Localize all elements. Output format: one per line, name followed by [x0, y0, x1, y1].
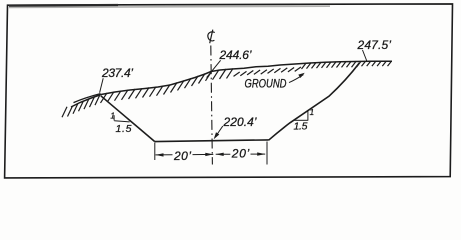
leader GROUND with arrow — [289, 73, 305, 83]
left slope line — [101, 96, 155, 142]
centerline symbol — [208, 30, 215, 44]
right extension line — [266, 142, 268, 165]
svg-text:20’: 20’ — [173, 149, 191, 163]
trench bottom line — [155, 140, 269, 142]
border frame — [5, 4, 453, 178]
leader 244.6' — [207, 60, 221, 77]
svg-text:20’: 20’ — [231, 147, 250, 161]
left slope symbol: horizontal tick — [114, 121, 129, 122]
svg-text:1.5: 1.5 — [294, 121, 308, 133]
leader 247.5' — [363, 50, 367, 61]
right slope line — [269, 63, 360, 140]
leader 220.4' with arrow — [214, 126, 223, 139]
leader 237.4' — [100, 78, 104, 93]
ground line — [71, 61, 392, 107]
svg-text:1: 1 — [310, 108, 314, 117]
ground line second stroke (left) — [74, 94, 101, 103]
svg-text:1: 1 — [110, 111, 114, 120]
border top smudge — [9, 6, 330, 7]
svg-text:GROUND: GROUND — [245, 77, 287, 91]
ground hatching — [62, 61, 392, 117]
left extension line — [154, 143, 156, 161]
right slope symbol: vertical tick — [307, 111, 309, 121]
svg-text:244.6’: 244.6’ — [219, 48, 252, 62]
svg-text:1.5: 1.5 — [116, 123, 132, 135]
right slope symbol: horizontal tick — [294, 119, 308, 121]
centerline (dash-dot) — [211, 46, 213, 165]
svg-text:237.4’: 237.4’ — [101, 66, 133, 80]
svg-text:247.5’: 247.5’ — [357, 38, 392, 52]
right 20' dimension — [216, 152, 266, 156]
svg-text:220.4’: 220.4’ — [223, 115, 257, 129]
left slope symbol: vertical tick — [113, 115, 115, 120]
left 20' dimension — [156, 153, 214, 157]
